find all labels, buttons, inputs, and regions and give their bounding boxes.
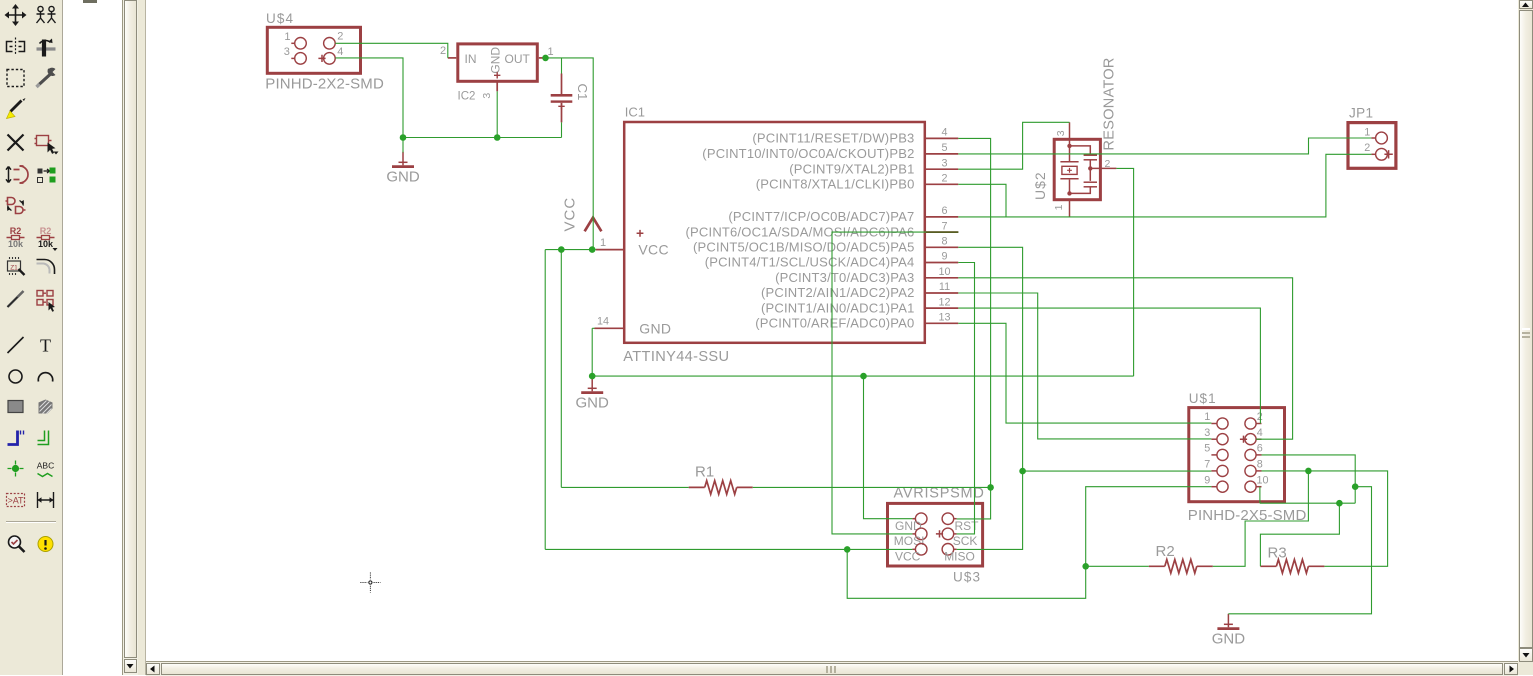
svg-text:8: 8	[941, 236, 947, 248]
resistor R2	[1149, 565, 1165, 567]
svg-text:(PCINT2/AIN1/ADC2)PA2: (PCINT2/AIN1/ADC2)PA2	[761, 285, 915, 300]
U$4 pin 3	[295, 53, 307, 65]
toolbar icon miter	[37, 260, 55, 275]
svg-text:U$4: U$4	[266, 11, 294, 26]
IC1 pin 9 PA4	[926, 262, 958, 264]
right scrollbar thumb grip	[1522, 328, 1530, 330]
IC1 pin 10 PA3	[926, 277, 958, 279]
hscroll right button	[1504, 663, 1518, 676]
svg-text:1: 1	[1364, 127, 1370, 139]
IC1 pin 11 PA2	[926, 292, 958, 294]
toolbar icon replace	[38, 168, 56, 183]
wire VCC under U$3 to pin9 node	[847, 549, 1085, 598]
svg-text:U$2: U$2	[1032, 171, 1048, 200]
svg-text:(PCINT5/OC1B/MISO/DO/ADC5)PA5: (PCINT5/OC1B/MISO/DO/ADC5)PA5	[693, 240, 915, 255]
svg-text:GND: GND	[386, 168, 420, 185]
ground symbol GND2 under IC1	[591, 378, 593, 392]
toolbar icon value	[37, 226, 58, 251]
svg-text:U$1: U$1	[1189, 391, 1217, 406]
svg-text:T: T	[40, 336, 51, 356]
IC2 pin 1 OUT stub	[539, 57, 546, 59]
svg-text:JP1: JP1	[1349, 105, 1373, 120]
svg-text:1: 1	[600, 237, 606, 249]
toolbar icon label	[37, 461, 54, 477]
svg-text:1: 1	[1053, 204, 1065, 210]
svg-text:5: 5	[1204, 443, 1210, 455]
U$1 origin cross	[1240, 436, 1247, 443]
wire PA4 pin9 SCK down	[957, 263, 975, 534]
U$2 load capacitors	[1070, 146, 1091, 154]
wire U$4 pin4 down to GND net	[335, 58, 403, 138]
svg-text:VCC: VCC	[895, 550, 921, 564]
svg-text:4: 4	[1257, 427, 1263, 439]
svg-text:RST: RST	[955, 519, 980, 533]
svg-text:2: 2	[337, 31, 343, 43]
wire PA7 pin6 long net to JP1 pin2	[958, 154, 1371, 217]
svg-text:10k: 10k	[8, 239, 24, 249]
svg-text:(PCINT11/RESET/DW)PB3: (PCINT11/RESET/DW)PB3	[752, 131, 914, 146]
ground symbol GND1 under U$4	[402, 152, 404, 166]
wire VCC rail to U$3 VCC	[545, 548, 912, 550]
toolbar icon dimension	[38, 492, 54, 508]
svg-text:10k: 10k	[38, 239, 54, 249]
wire MISO branch to U$1 pin7	[1023, 470, 1212, 472]
wire IC2 GND pin down	[496, 91, 498, 137]
IC1 pin 13 PA0	[926, 322, 958, 324]
resistor R3	[1260, 565, 1276, 567]
U$4 pin 1	[295, 38, 307, 50]
svg-text:4: 4	[337, 46, 343, 58]
toolbar icon wire	[8, 337, 24, 353]
left command toolbar background	[0, 0, 63, 675]
right scrollbar thumb	[1519, 10, 1533, 648]
svg-text:R2: R2	[40, 226, 52, 236]
U$3 pin VCC	[915, 544, 927, 556]
wire pin6 branch to GND3	[1228, 487, 1371, 614]
IC2 pin 2 IN stub	[448, 57, 457, 59]
toolbar icon text	[40, 336, 51, 356]
toolbar icon circle	[9, 370, 22, 383]
U$3 pin MISO	[942, 544, 954, 556]
toolbar separator groove	[6, 521, 56, 522]
svg-text:12: 12	[938, 296, 950, 308]
IC1 origin cross	[637, 230, 644, 237]
toolbar icon net	[38, 431, 49, 445]
svg-text:10: 10	[1256, 474, 1268, 486]
wire GND1 stub	[402, 138, 404, 153]
svg-text:GND: GND	[639, 320, 671, 336]
sheet thumbnail sliver	[83, 0, 97, 3]
svg-text:(PCINT3/T0/ADC3)PA3: (PCINT3/T0/ADC3)PA3	[775, 270, 914, 285]
toolbar icon errors	[38, 537, 53, 552]
IC1 pin 1 VCC stub	[596, 249, 624, 251]
U$1 pin 2	[1245, 418, 1256, 429]
wire pin8 node to R3 right	[1308, 471, 1387, 566]
svg-text:9: 9	[1204, 474, 1210, 486]
toolbar icon split	[8, 291, 24, 307]
toolbar icon bus	[8, 431, 24, 445]
wire U$4 pin2 to IC2 IN	[335, 43, 447, 58]
sheets scrollbar down button	[124, 659, 137, 673]
svg-text:2: 2	[941, 173, 947, 185]
hscroll left button	[146, 663, 160, 676]
connector U$4 PINHD-2X2-SMD	[267, 27, 360, 73]
svg-text:7: 7	[1204, 459, 1210, 471]
svg-text:ATTINY44-SSU: ATTINY44-SSU	[623, 349, 729, 365]
toolbar icon rotate	[37, 39, 56, 57]
svg-text:R2: R2	[10, 226, 22, 236]
connector U$1 PINHD-2X5-SMD	[1189, 408, 1285, 502]
mouse crosshair cursor	[360, 573, 380, 593]
svg-text:ABC: ABC	[37, 461, 54, 471]
wire VCC junction horizontal	[545, 249, 596, 251]
wire U$1 pin8 to node	[1262, 470, 1309, 472]
resistor R1	[689, 486, 705, 488]
toolbar icon invoke	[37, 291, 55, 312]
wire VCC down-left branch	[544, 250, 546, 550]
sheets panel vertical scrollbar	[122, 0, 140, 675]
svg-text:(PCINT4/T1/SCL/USCK/ADC4)PA4: (PCINT4/T1/SCL/USCK/ADC4)PA4	[705, 255, 915, 270]
svg-text:1: 1	[547, 46, 553, 58]
sheets panel	[63, 0, 122, 675]
wire U$1 pin6 down	[1262, 455, 1356, 503]
IC1 pin 4 PB3	[926, 137, 958, 139]
svg-text:3: 3	[1055, 130, 1067, 136]
wire PB3 pin4 down to RESET node	[958, 138, 990, 487]
svg-text:10: 10	[938, 266, 950, 278]
svg-text:(PCINT9/XTAL2)PB1: (PCINT9/XTAL2)PB1	[789, 161, 914, 176]
JP1 pin 1	[1376, 132, 1388, 144]
svg-text:6: 6	[941, 205, 947, 217]
wire R2 right up to pin8 node	[1213, 471, 1309, 566]
toolbar icon arc	[38, 373, 52, 382]
IC1 pin 7 PA6	[926, 231, 958, 233]
wire PB1 pin3 to U$2 pin3	[958, 122, 1069, 169]
svg-text:PINHD-2X2-SMD: PINHD-2X2-SMD	[265, 76, 384, 93]
U$2 crystal element	[1067, 144, 1071, 148]
wire RESET node down to U$3 RST	[957, 487, 991, 519]
toolbar icon rect	[8, 401, 23, 413]
U$1 pin 1	[1217, 418, 1228, 429]
junction dots	[400, 134, 407, 141]
svg-text:VCC: VCC	[638, 241, 668, 257]
svg-text:GND: GND	[489, 47, 503, 74]
connector JP1	[1348, 123, 1396, 169]
wire pin9 node to R2 left	[1086, 565, 1149, 567]
wire PA6 overlap on pin stub	[926, 231, 958, 233]
IC1 pin 14 GND stub	[595, 327, 625, 329]
wire C1 top tap	[561, 58, 563, 74]
U$3 pin GND	[915, 513, 927, 525]
svg-text:>AT: >AT	[7, 496, 24, 506]
U$1 pin 9	[1217, 481, 1228, 492]
toolbar icon delete	[8, 135, 24, 151]
supply VCC symbol	[585, 218, 602, 232]
svg-text:IN: IN	[465, 52, 477, 66]
svg-text:U$3: U$3	[953, 569, 981, 584]
svg-text:(PCINT8/XTAL1/CLKI)PB0: (PCINT8/XTAL1/CLKI)PB0	[756, 177, 915, 192]
toolbar icon erc	[9, 536, 25, 552]
hscroll thumb	[161, 663, 1503, 676]
toolbar icon smash	[8, 257, 25, 275]
toolbar icon change wrench	[37, 68, 56, 87]
wire rail down to R3 left	[1260, 503, 1339, 566]
U$3 pin MOSI	[915, 528, 927, 540]
svg-text:GND: GND	[895, 519, 922, 533]
svg-text:R1: R1	[695, 464, 714, 481]
svg-text:GND: GND	[1212, 630, 1246, 647]
svg-text:13: 13	[938, 312, 950, 324]
toolbar icon group	[7, 70, 24, 87]
toolbar icon copy	[37, 6, 56, 23]
IC1 pin 6 PA7	[926, 216, 958, 218]
svg-text:IC1: IC1	[625, 105, 645, 120]
svg-text:9: 9	[941, 251, 947, 263]
wire PA0 pin13 to U$1 pin1	[958, 323, 1211, 423]
svg-text:11: 11	[939, 281, 950, 293]
IC2 pin 3 GND stub	[496, 81, 498, 91]
wire GND rail up to U$2 pin2	[1116, 168, 1133, 376]
svg-text:2: 2	[1257, 411, 1263, 423]
svg-text:4: 4	[941, 127, 947, 139]
right scrollbar down button	[1519, 648, 1533, 662]
wire VCC to R1 branch	[560, 250, 562, 488]
svg-text:3: 3	[1204, 427, 1210, 439]
toolbar icon add	[35, 136, 59, 155]
toolbar icon junction	[8, 461, 24, 477]
svg-text:(PCINT10/INT0/OC0A/CKOUT)PB2: (PCINT10/INT0/OC0A/CKOUT)PB2	[702, 146, 914, 161]
U$4 pin 4	[324, 53, 336, 65]
U$1 pin 4	[1245, 434, 1256, 445]
svg-text:R3: R3	[1268, 545, 1287, 562]
U$3 pin SCK	[942, 528, 954, 540]
svg-text:1: 1	[1204, 411, 1210, 423]
U$3 origin cross	[936, 530, 943, 537]
wire PA2 pin11 to U$1 pin3	[958, 293, 1211, 439]
wire IC2 OUT to VCC rail	[546, 58, 594, 250]
toolbar icon move	[5, 4, 27, 26]
svg-text:(PCINT1/AIN0/ADC1)PA1: (PCINT1/AIN0/ADC1)PA1	[761, 300, 915, 315]
toolbar icon polygon	[39, 400, 53, 414]
svg-text:(PCINT7/ICP/OC0B/ADC7)PA7: (PCINT7/ICP/OC0B/ADC7)PA7	[728, 209, 914, 224]
capacitor C1	[561, 74, 563, 95]
U$3 pin RST	[942, 513, 954, 525]
toolbar icon attribute	[7, 494, 25, 507]
U$1 pin 8	[1245, 465, 1256, 476]
svg-text:6: 6	[1257, 443, 1263, 455]
wire PA5 pin8 MISO down	[957, 247, 1023, 549]
U$2 pin 2 stub	[1090, 167, 1116, 169]
wire GND net horizontal under IC2	[403, 137, 562, 139]
svg-text:MOSI: MOSI	[894, 534, 925, 548]
IC U$2 RESONATOR	[1054, 139, 1100, 199]
JP1 origin cross	[1384, 150, 1392, 158]
svg-text:1: 1	[284, 31, 290, 43]
wire VCC to R1 left lead	[561, 486, 688, 488]
svg-text:VCC: VCC	[562, 197, 579, 232]
wire PB2 pin5 to JP1 pin1	[958, 138, 1371, 154]
svg-text:(PCINT0/AREF/ADC0)PA0: (PCINT0/AREF/ADC0)PA0	[755, 316, 914, 331]
JP1 pin 2	[1376, 148, 1388, 160]
wire GND rail from GND2	[592, 375, 1133, 377]
gap strip between panel and canvas	[138, 0, 146, 675]
svg-text:14: 14	[597, 316, 609, 328]
IC1 pin 3 PB1	[926, 168, 958, 170]
U$4 pin 2	[324, 38, 336, 50]
svg-text:SCK: SCK	[953, 534, 978, 548]
U$4 origin cross	[318, 55, 325, 62]
U$1 pin 5	[1217, 449, 1228, 460]
IC1 pin 5 PB2	[926, 153, 958, 155]
svg-text:C1: C1	[575, 84, 590, 101]
svg-text:3: 3	[481, 93, 493, 99]
svg-text:5: 5	[941, 142, 947, 154]
svg-text:3: 3	[941, 157, 947, 169]
svg-text:RESONATOR: RESONATOR	[1102, 57, 1118, 150]
U$2 pin 1 stub	[1069, 200, 1071, 217]
IC1 pin 8 PA5	[926, 246, 958, 248]
hscroll thumb grip	[826, 666, 828, 673]
wire PA1 pin12 to U$1 pin2	[958, 308, 1260, 423]
toolbar icon pinswap	[6, 166, 28, 183]
wire pin9 node to U$1 pin9	[1086, 487, 1212, 567]
svg-text:GND: GND	[576, 394, 610, 411]
toolbar icon name	[7, 226, 25, 249]
U$1 pin 7	[1217, 465, 1228, 476]
toolbar icon cut	[7, 98, 26, 119]
right vertical scrollbar	[1518, 0, 1533, 675]
bottom horizontal scrollbar	[146, 661, 1518, 676]
wire PB0 pin2 down to XTAL1 net	[958, 184, 1006, 217]
svg-text:OUT: OUT	[505, 52, 531, 66]
wire U$1 pin10 to rail	[1260, 487, 1355, 504]
voltage regulator IC2	[458, 44, 538, 81]
wire R1 right to RESET node	[753, 486, 991, 488]
svg-text:IC2: IC2	[458, 90, 476, 102]
IC1 pin 12 PA1	[926, 307, 958, 309]
IC IC1 ATTINY44-SSU	[624, 122, 925, 343]
toolbar icon gateswap	[6, 198, 26, 214]
wire C1 bottom to GND net	[561, 122, 563, 137]
wire PA6 pin7 MOSI across IC1	[832, 232, 958, 534]
ground symbol GND3 bottom right	[1227, 614, 1229, 628]
svg-text:7: 7	[941, 220, 947, 232]
connector U$3 AVRISPSMD	[888, 503, 983, 566]
wire IC1 pin14 GND down	[592, 328, 594, 376]
toolbar icon mirror	[7, 38, 25, 56]
svg-text:2: 2	[1364, 142, 1370, 154]
wire GND rail down to U$3 GND	[864, 376, 913, 519]
IC1 pin 2 PB0	[926, 183, 958, 185]
wire PA3 pin10 to U$1 pin4	[958, 278, 1292, 439]
svg-text:R2: R2	[1156, 543, 1175, 560]
svg-text:MISO: MISO	[944, 550, 975, 564]
svg-text:Z1: Z1	[10, 265, 18, 272]
svg-text:2: 2	[440, 45, 446, 57]
U$1 pin 6	[1245, 449, 1256, 460]
svg-text:8: 8	[1257, 459, 1263, 471]
sheets scrollbar thumb	[124, 0, 137, 658]
U$2 pin 3 stub	[1069, 122, 1071, 146]
U$1 pin 3	[1217, 434, 1228, 445]
U$1 pin 10	[1245, 481, 1256, 492]
svg-text:3: 3	[284, 46, 290, 58]
